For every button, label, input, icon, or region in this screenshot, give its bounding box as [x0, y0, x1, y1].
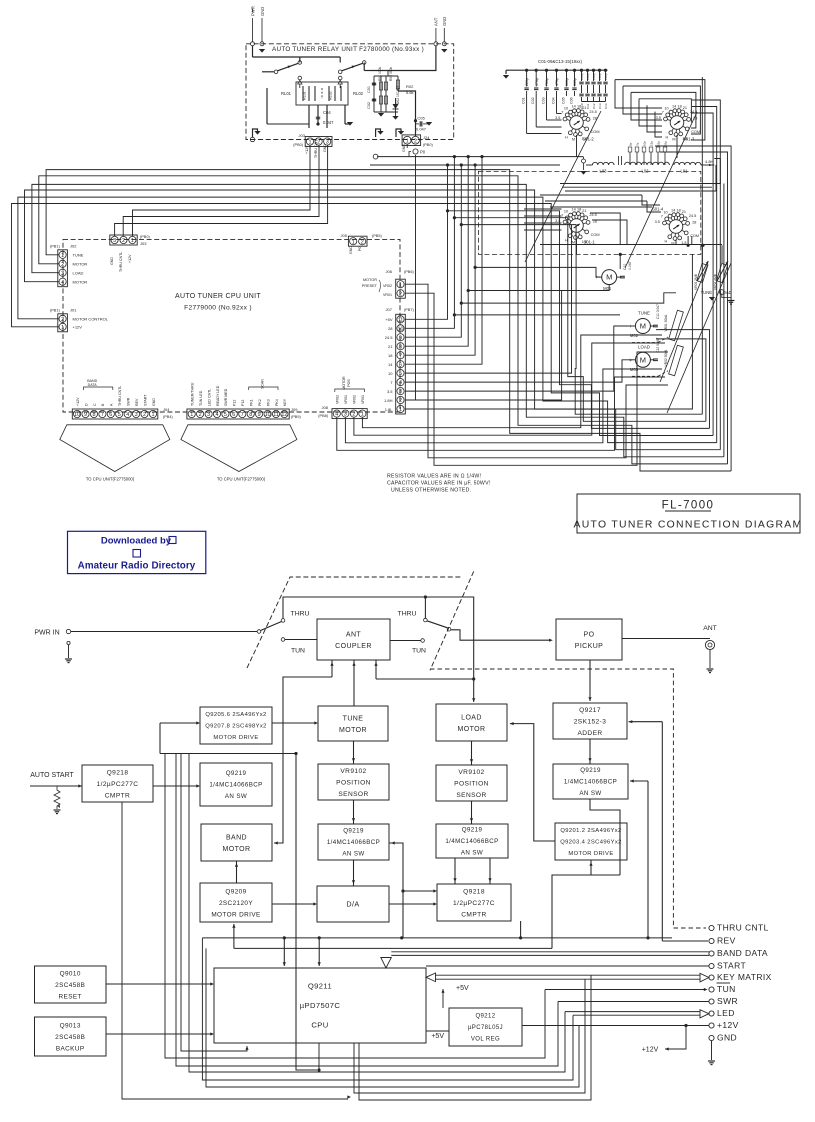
svg-text:(PB9): (PB9): [291, 415, 301, 419]
svg-text:F2779000 (No.92xx ): F2779000 (No.92xx ): [184, 305, 252, 312]
svg-text:2: 2: [61, 262, 64, 268]
svg-text:2SK152-3: 2SK152-3: [574, 718, 607, 725]
svg-text:R02 390k: R02 390k: [389, 67, 393, 81]
svg-text:POS: POS: [347, 379, 351, 387]
svg-text:2: 2: [199, 412, 202, 418]
svg-text:S01-4: S01-4: [652, 207, 664, 212]
svg-text:TUN: TUN: [717, 984, 736, 994]
svg-text:(PB0): (PB0): [293, 143, 303, 147]
svg-text:2: 2: [352, 412, 355, 418]
svg-text:J01: J01: [70, 308, 77, 313]
svg-text:C12 0.047: C12 0.047: [656, 337, 660, 352]
svg-text:15p: 15p: [650, 141, 654, 146]
svg-text:GND: GND: [110, 257, 114, 265]
svg-text:3.5: 3.5: [655, 220, 660, 224]
svg-text:22p: 22p: [657, 141, 661, 146]
svg-text:D: D: [84, 403, 88, 406]
svg-text:7p: 7p: [636, 142, 640, 146]
svg-text:(PB0): (PB0): [423, 143, 433, 147]
svg-text:START: START: [717, 961, 746, 971]
svg-text:MOTOR: MOTOR: [73, 280, 88, 285]
svg-text:AN SW: AN SW: [225, 793, 247, 800]
svg-text:MOTOR CONTROL: MOTOR CONTROL: [73, 317, 109, 322]
svg-text:MOTOR DRIVE: MOTOR DRIVE: [213, 735, 258, 741]
svg-text:(PB0): (PB0): [140, 235, 150, 239]
svg-text:21: 21: [683, 106, 687, 110]
svg-text:+: +: [595, 275, 598, 281]
svg-text:READY LED: READY LED: [216, 385, 220, 406]
svg-text:GND: GND: [442, 17, 447, 26]
svg-text:SWR: SWR: [127, 397, 131, 406]
svg-text:LED: LED: [717, 1008, 735, 1018]
svg-text:FL-7000: FL-7000: [662, 500, 715, 512]
svg-text:SCAN: SCAN: [260, 379, 264, 389]
svg-text:3.5: 3.5: [387, 389, 393, 394]
svg-text:10: 10: [663, 210, 667, 214]
svg-text:1/4MC14066BCP: 1/4MC14066BCP: [209, 782, 262, 789]
svg-text:AUTO TUNER CPU UNIT: AUTO TUNER CPU UNIT: [175, 293, 261, 300]
svg-text:C11 0.047: C11 0.047: [656, 304, 660, 319]
svg-text:Q9219: Q9219: [343, 828, 364, 835]
svg-text:220p: 220p: [525, 78, 529, 86]
svg-text:PO: PO: [584, 631, 595, 638]
svg-text:(PB7): (PB7): [404, 308, 414, 312]
svg-text:Downloaded by: Downloaded by: [101, 536, 172, 547]
svg-text:1.8L: 1.8L: [385, 407, 394, 412]
svg-text:ADDER: ADDER: [577, 730, 602, 737]
svg-text:1/4MC14066BCP: 1/4MC14066BCP: [445, 838, 498, 845]
svg-text:R01 100k: R01 100k: [378, 67, 382, 81]
svg-text:VR02: VR02: [336, 395, 340, 404]
svg-text:C05: C05: [417, 116, 425, 121]
svg-text:VR03 2MB: VR03 2MB: [694, 273, 698, 290]
svg-text:µPC78L05J: µPC78L05J: [468, 1025, 503, 1031]
svg-text:THRU CNTL: THRU CNTL: [118, 386, 122, 406]
svg-text:Q9013: Q9013: [60, 1022, 81, 1029]
svg-text:7: 7: [241, 412, 244, 418]
svg-text:14: 14: [671, 208, 675, 212]
svg-text:18: 18: [577, 207, 581, 211]
svg-text:1/4MC14066BCP: 1/4MC14066BCP: [327, 839, 380, 846]
svg-text:H: H: [565, 135, 568, 139]
svg-text:18: 18: [577, 104, 581, 108]
svg-text:0.047: 0.047: [323, 120, 334, 125]
svg-text:150p: 150p: [598, 73, 602, 80]
svg-text:1: 1: [309, 140, 312, 146]
svg-text:21: 21: [582, 209, 586, 213]
svg-text:1: 1: [399, 407, 402, 413]
svg-text:2: 2: [143, 412, 146, 418]
svg-text:Q9211: Q9211: [308, 982, 332, 991]
svg-text:UNLESS OTHERWISE NOTED.: UNLESS OTHERWISE NOTED.: [391, 488, 471, 494]
svg-text:START: START: [143, 394, 147, 406]
svg-text:Q9218: Q9218: [463, 888, 485, 895]
svg-text:+5V: +5V: [385, 317, 393, 322]
svg-text:C01: C01: [521, 97, 525, 104]
svg-text:Q9219: Q9219: [580, 767, 601, 774]
svg-text:3: 3: [135, 412, 138, 418]
svg-text:0.047: 0.047: [416, 127, 427, 132]
svg-text:1/2µPC277C: 1/2µPC277C: [453, 900, 495, 907]
svg-text:CPU: CPU: [311, 1021, 328, 1030]
svg-text:AUTO START: AUTO START: [30, 772, 74, 779]
svg-text:+12V: +12V: [642, 1047, 659, 1054]
svg-text:360p: 360p: [573, 78, 577, 86]
svg-text:VR01: VR01: [344, 395, 348, 404]
svg-text:28: 28: [692, 221, 696, 225]
svg-text:J05: J05: [341, 233, 348, 238]
svg-text:S01-1: S01-1: [584, 240, 596, 245]
svg-text:RL01: RL01: [281, 91, 292, 96]
svg-text:(PB8): (PB8): [318, 414, 328, 418]
svg-text:4: 4: [399, 380, 402, 386]
svg-text:33p: 33p: [664, 141, 668, 146]
svg-text:GND: GND: [402, 144, 406, 152]
svg-text:MOTOR DRIVE: MOTOR DRIVE: [211, 911, 260, 918]
svg-text:Q9209: Q9209: [225, 888, 246, 895]
svg-text:M02: M02: [630, 333, 639, 338]
svg-text:4.8H: 4.8H: [705, 159, 714, 164]
svg-text:Q9010: Q9010: [60, 970, 81, 977]
svg-text:8: 8: [93, 412, 96, 418]
svg-text:COM: COM: [591, 233, 600, 237]
svg-text:10: 10: [664, 106, 668, 110]
svg-text:PK1: PK1: [250, 399, 254, 406]
svg-text:3: 3: [399, 389, 402, 395]
svg-text:8: 8: [399, 344, 402, 350]
svg-text:5: 5: [224, 412, 227, 418]
svg-text:TUNE: TUNE: [343, 715, 364, 722]
svg-text:2SC458B: 2SC458B: [55, 1034, 85, 1041]
svg-text:P12: P12: [233, 400, 237, 406]
svg-text:THRU CNTL: THRU CNTL: [119, 252, 123, 272]
svg-text:µPD7507C: µPD7507C: [300, 1001, 341, 1010]
svg-text:LOAD: LOAD: [461, 714, 482, 721]
svg-text:21: 21: [682, 210, 686, 214]
svg-text:VR01 50kA: VR01 50kA: [664, 314, 668, 331]
svg-text:VR9102: VR9102: [340, 768, 366, 775]
svg-text:GND: GND: [260, 7, 265, 16]
svg-text:1: 1: [152, 412, 155, 418]
svg-text:P0: P0: [358, 247, 362, 251]
svg-text:TUN: TUN: [291, 648, 305, 655]
svg-text:C02: C02: [367, 102, 371, 109]
svg-text:5p: 5p: [629, 142, 633, 146]
svg-text:21: 21: [582, 106, 586, 110]
svg-text:THRU CNTL: THRU CNTL: [717, 923, 769, 933]
svg-text:0.047: 0.047: [628, 261, 632, 270]
svg-text:J08: J08: [322, 405, 329, 410]
svg-text:MOTOR: MOTOR: [363, 278, 377, 282]
svg-text:1: 1: [190, 412, 193, 418]
svg-text:M: M: [672, 138, 675, 142]
svg-text:C05: C05: [561, 97, 565, 104]
svg-text:THRU: THRU: [398, 611, 417, 618]
svg-text:+12V: +12V: [76, 397, 80, 406]
svg-text:SWR: SWR: [717, 996, 738, 1006]
svg-text:VR01: VR01: [361, 395, 365, 404]
svg-text:MOTOR: MOTOR: [458, 726, 486, 733]
svg-text:Q9217: Q9217: [579, 707, 601, 714]
svg-text:GND: GND: [349, 246, 353, 254]
svg-text:POSITION: POSITION: [454, 780, 489, 787]
svg-text:BACKUP: BACKUP: [56, 1045, 85, 1052]
svg-text:C14: C14: [604, 103, 608, 109]
svg-text:1/2µPC277C: 1/2µPC277C: [97, 781, 139, 788]
svg-text:KEY: KEY: [283, 398, 287, 406]
svg-text:PK2: PK2: [258, 399, 262, 406]
svg-text:24.5: 24.5: [385, 335, 394, 340]
svg-text:C06: C06: [569, 97, 573, 104]
svg-text:SWR MED: SWR MED: [224, 388, 228, 406]
svg-text:18: 18: [676, 208, 680, 212]
svg-text:ANT: ANT: [346, 631, 362, 638]
svg-text:AN SW: AN SW: [461, 850, 483, 857]
svg-text:3: 3: [207, 412, 210, 418]
svg-text:TO CPU UNIT(F2775000): TO CPU UNIT(F2775000): [86, 477, 135, 482]
svg-text:R02: R02: [406, 84, 414, 89]
svg-text:TUN LED: TUN LED: [199, 390, 203, 406]
svg-text:2: 2: [399, 291, 402, 297]
svg-text:MOTOR: MOTOR: [223, 846, 251, 853]
svg-text:12: 12: [281, 412, 287, 418]
svg-text:PICKUP: PICKUP: [575, 643, 603, 650]
svg-text:BAND: BAND: [226, 834, 247, 841]
svg-text:J04: J04: [163, 407, 170, 412]
svg-text:C04: C04: [551, 97, 555, 104]
svg-text:24.5: 24.5: [589, 213, 596, 217]
svg-text:7: 7: [399, 353, 402, 359]
svg-text:6: 6: [232, 412, 235, 418]
svg-text:1/4MC14066BCP: 1/4MC14066BCP: [564, 779, 617, 786]
svg-text:(PB5): (PB5): [372, 234, 382, 238]
svg-text:LED CNTL: LED CNTL: [207, 389, 211, 406]
svg-text:COUPLER: COUPLER: [335, 643, 372, 650]
svg-text:SENSOR: SENSOR: [338, 791, 368, 798]
svg-text:M: M: [640, 355, 646, 364]
svg-text:10: 10: [398, 326, 404, 332]
svg-text:470p: 470p: [555, 78, 559, 86]
svg-text:(PB6): (PB6): [404, 270, 414, 274]
svg-text:PWR IN: PWR IN: [34, 630, 59, 637]
svg-text:3.5: 3.5: [656, 116, 661, 120]
svg-text:24.5: 24.5: [689, 214, 696, 218]
svg-text:P13: P13: [241, 400, 245, 406]
svg-text:+5V: +5V: [456, 985, 469, 992]
svg-text:14: 14: [672, 104, 676, 108]
svg-text:REV: REV: [717, 936, 736, 946]
svg-text:REV: REV: [135, 398, 139, 406]
svg-text:Amateur Radio Directory: Amateur Radio Directory: [78, 561, 196, 572]
svg-text:10p: 10p: [643, 141, 647, 146]
svg-text:8: 8: [249, 412, 252, 418]
svg-text:Q9218: Q9218: [107, 769, 129, 776]
svg-text:ANT: ANT: [703, 625, 717, 632]
svg-text:TUNE: TUNE: [638, 311, 650, 316]
svg-text:10: 10: [388, 371, 393, 376]
svg-text:2: 2: [399, 398, 402, 404]
svg-text:AUTO TUNER RELAY UNIT F2780000: AUTO TUNER RELAY UNIT F2780000 (No.93xx …: [272, 46, 424, 53]
svg-text:5: 5: [399, 371, 402, 377]
svg-text:2: 2: [61, 317, 64, 323]
svg-text:VOL REG: VOL REG: [471, 1037, 500, 1043]
svg-text:+: +: [629, 324, 632, 330]
svg-text:(PB1): (PB1): [50, 309, 60, 313]
svg-text:H: H: [666, 135, 669, 139]
svg-text:S01-2: S01-2: [583, 137, 595, 142]
svg-text:+: +: [629, 358, 632, 364]
svg-text:+5V: +5V: [431, 1033, 444, 1040]
svg-text:AUTO TUNER CONNECTION DIAGRAM: AUTO TUNER CONNECTION DIAGRAM: [574, 520, 803, 531]
svg-text:RL01: RL01: [303, 91, 307, 100]
svg-text:2SC2120Y: 2SC2120Y: [219, 900, 253, 907]
svg-text:150p: 150p: [586, 73, 590, 80]
svg-text:COM: COM: [591, 130, 600, 134]
svg-text:RL02: RL02: [329, 91, 333, 100]
svg-text:C01-09&C13-15(19xx): C01-09&C13-15(19xx): [538, 59, 582, 64]
svg-text:7: 7: [101, 412, 104, 418]
svg-text:18: 18: [677, 104, 681, 108]
svg-text:DATA: DATA: [88, 383, 98, 387]
svg-text:11: 11: [398, 317, 404, 323]
svg-text:4: 4: [335, 412, 338, 418]
svg-text:750p: 750p: [545, 78, 549, 86]
svg-text:CMPTR: CMPTR: [105, 792, 130, 799]
svg-text:18: 18: [388, 353, 393, 358]
svg-text:1: 1: [399, 282, 402, 288]
svg-text:VR02: VR02: [383, 284, 392, 288]
svg-text:1: 1: [131, 238, 134, 244]
svg-text:PK4: PK4: [275, 399, 279, 406]
svg-text:POSITION: POSITION: [336, 779, 371, 786]
svg-text:GND: GND: [323, 144, 327, 152]
svg-text:MOTOR: MOTOR: [73, 262, 88, 267]
svg-text:C02: C02: [531, 97, 535, 104]
svg-text:VR02: VR02: [353, 395, 357, 404]
svg-text:H: H: [665, 239, 668, 243]
svg-text:1: 1: [361, 412, 364, 418]
svg-text:5: 5: [118, 412, 121, 418]
svg-text:7: 7: [661, 214, 663, 218]
svg-text:AN SW: AN SW: [579, 790, 601, 797]
svg-text:GND: GND: [152, 398, 156, 406]
svg-text:2: 2: [122, 238, 125, 244]
svg-text:1: 1: [61, 253, 64, 259]
svg-text:RESET: RESET: [59, 993, 82, 1000]
svg-text:TUNE: TUNE: [73, 253, 84, 258]
svg-text:1: 1: [352, 239, 355, 245]
svg-text:9: 9: [399, 335, 402, 341]
svg-text:1: 1: [406, 138, 409, 144]
svg-text:Q9219: Q9219: [462, 827, 483, 834]
svg-text:10: 10: [265, 412, 271, 418]
svg-text:Q9207.8 2SC498Yx2: Q9207.8 2SC498Yx2: [205, 724, 267, 730]
svg-text:ANT: ANT: [434, 17, 439, 26]
svg-text:7: 7: [662, 110, 664, 114]
svg-text:PK3: PK3: [266, 399, 270, 406]
svg-text:MOTOR: MOTOR: [342, 376, 346, 390]
svg-text:14: 14: [388, 362, 393, 367]
svg-text:M: M: [671, 242, 674, 246]
svg-text:J03: J03: [140, 241, 147, 246]
svg-text:(PB1): (PB1): [50, 245, 60, 249]
svg-text:+12V: +12V: [128, 254, 132, 263]
svg-text:150p: 150p: [592, 73, 596, 80]
svg-text:2: 2: [361, 239, 364, 245]
svg-text:VR9102: VR9102: [458, 769, 484, 776]
svg-text:6: 6: [399, 362, 402, 368]
svg-text:C11: C11: [586, 103, 590, 109]
svg-text:9: 9: [84, 412, 87, 418]
svg-text:4: 4: [61, 280, 64, 286]
svg-text:150p: 150p: [604, 73, 608, 80]
svg-text:LOAD: LOAD: [638, 344, 650, 349]
svg-text:Q9212: Q9212: [475, 1014, 495, 1020]
svg-text:11: 11: [273, 412, 279, 418]
svg-text:RL02: RL02: [353, 91, 364, 96]
svg-text:3.5: 3.5: [555, 116, 560, 120]
svg-text:J03: J03: [299, 133, 306, 138]
svg-text:3: 3: [344, 412, 347, 418]
svg-text:CAPACITOR VALUES ARE IN µF, 50: CAPACITOR VALUES ARE IN µF, 50WV!: [387, 481, 490, 487]
svg-text:7: 7: [561, 110, 563, 114]
svg-text:J24: J24: [423, 135, 430, 140]
svg-text:3: 3: [61, 271, 64, 277]
svg-text:TUNER/THRU: TUNER/THRU: [191, 382, 195, 406]
svg-text:AN SW: AN SW: [342, 851, 364, 858]
svg-text:J09: J09: [291, 407, 298, 412]
svg-text:J06: J06: [386, 269, 393, 274]
svg-text:VR04 4MB: VR04 4MB: [714, 273, 718, 290]
svg-text:3: 3: [113, 238, 116, 244]
svg-text:M: M: [572, 241, 575, 245]
svg-text:CMPTR: CMPTR: [461, 911, 486, 918]
svg-text:GND: GND: [717, 1033, 737, 1043]
svg-text:470p: 470p: [535, 78, 539, 86]
svg-text:SENSOR: SENSOR: [456, 792, 486, 799]
svg-text:M: M: [640, 322, 646, 331]
svg-text:28: 28: [388, 326, 393, 331]
svg-text:THRU: THRU: [291, 611, 310, 618]
svg-text:14: 14: [571, 207, 575, 211]
svg-text:24.5: 24.5: [589, 110, 596, 114]
svg-text:21: 21: [388, 344, 393, 349]
svg-text:C12: C12: [592, 103, 596, 109]
svg-text:Q9203.4 2SC496Yx2: Q9203.4 2SC496Yx2: [560, 840, 622, 846]
svg-text:RESISTOR VALUES ARE IN Ω 1/4W!: RESISTOR VALUES ARE IN Ω 1/4W!: [387, 474, 481, 480]
svg-text:4: 4: [216, 412, 219, 418]
svg-text:M: M: [606, 273, 612, 282]
svg-text:J02: J02: [70, 244, 77, 249]
svg-text:THRU CNTL: THRU CNTL: [314, 138, 318, 158]
svg-text:BAND DATA: BAND DATA: [717, 948, 768, 958]
svg-text:10: 10: [564, 209, 568, 213]
svg-text:LOAD: LOAD: [73, 271, 84, 276]
svg-text:D/A: D/A: [346, 900, 359, 909]
svg-text:MOTOR: MOTOR: [339, 727, 367, 734]
svg-text:Q9205.6 2SA496Yx2: Q9205.6 2SA496Yx2: [205, 712, 266, 718]
svg-text:(PB4): (PB4): [163, 415, 173, 419]
svg-text:+12V: +12V: [717, 1020, 739, 1030]
svg-text:2: 2: [414, 138, 417, 144]
svg-text:14: 14: [571, 104, 575, 108]
svg-text:6: 6: [109, 412, 112, 418]
svg-text:2SC458B: 2SC458B: [55, 982, 85, 989]
svg-text:C01: C01: [367, 86, 371, 93]
svg-text:+12V: +12V: [73, 325, 83, 330]
svg-text:360p: 360p: [565, 78, 569, 86]
svg-text:C03: C03: [541, 97, 545, 104]
